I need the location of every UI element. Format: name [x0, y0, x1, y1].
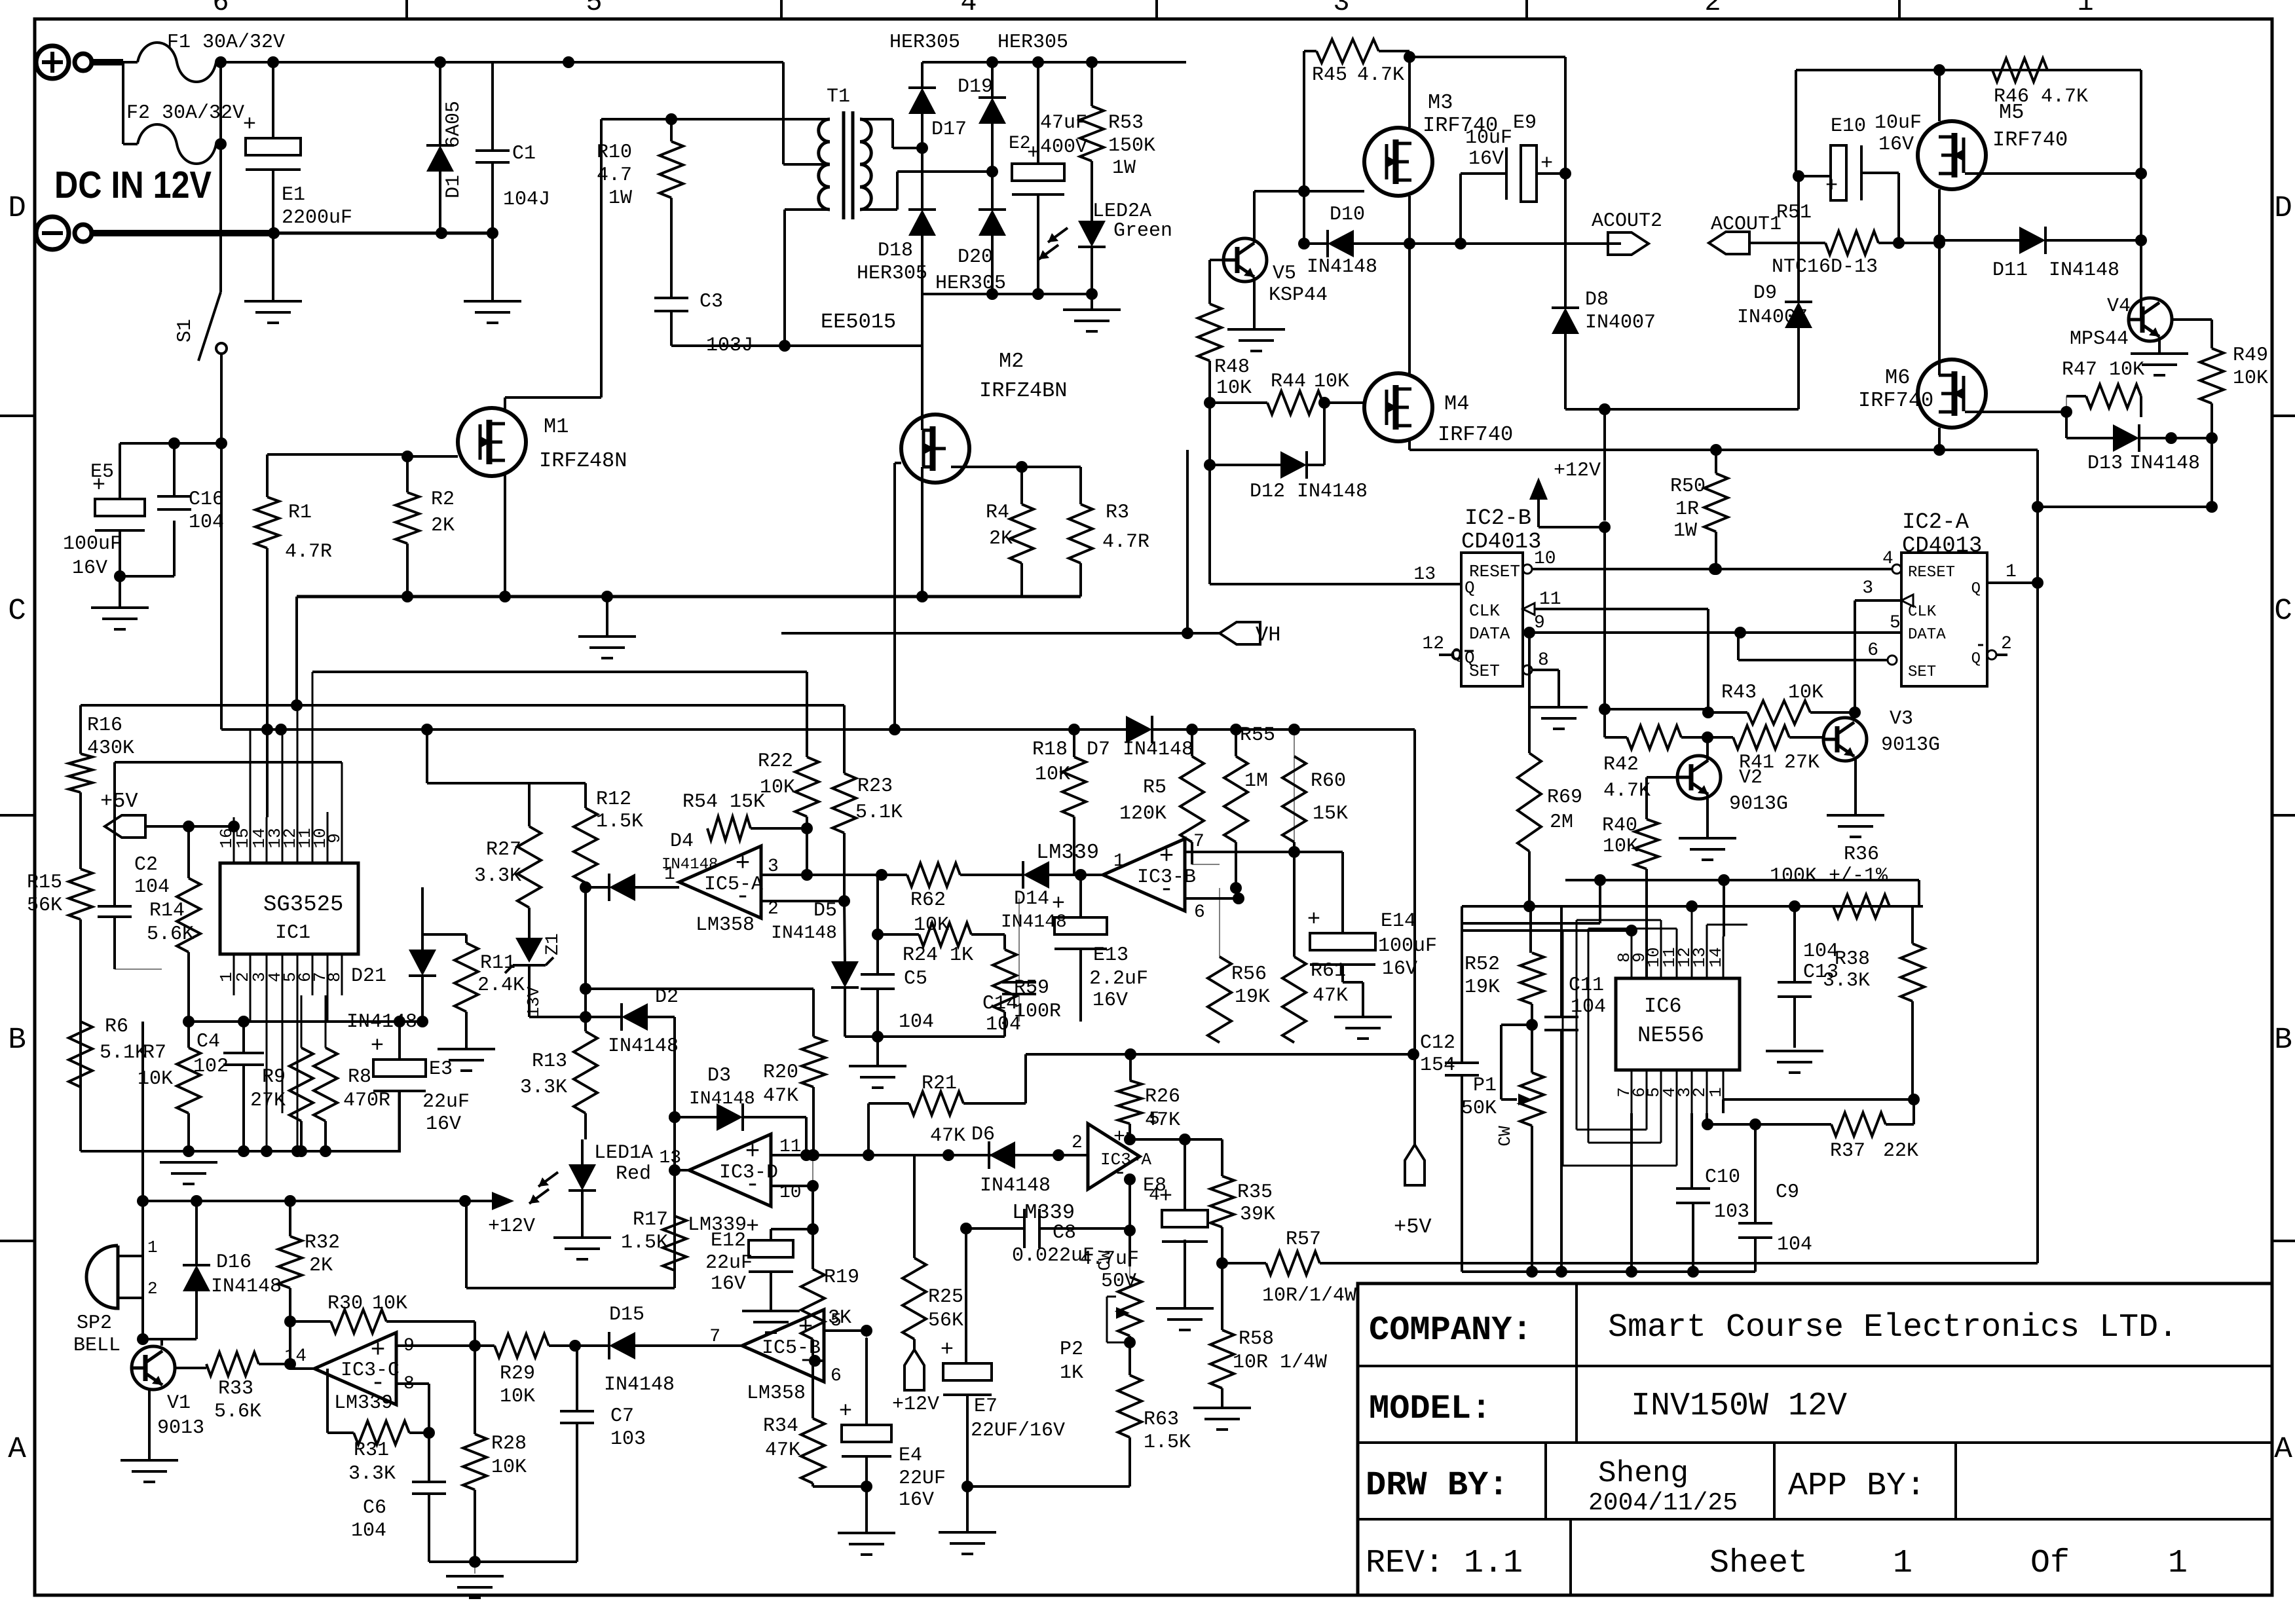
svg-text:10uF: 10uF: [1465, 127, 1512, 149]
svg-text:103: 103: [610, 1428, 646, 1450]
svg-text:C7: C7: [610, 1405, 634, 1428]
svg-text:D: D: [8, 191, 26, 225]
svg-text:P1: P1: [1473, 1075, 1497, 1097]
svg-text:R21: R21: [922, 1073, 957, 1095]
svg-text:D21: D21: [351, 965, 386, 987]
svg-text:R18: R18: [1032, 739, 1068, 761]
svg-text:R43: R43: [1721, 682, 1757, 704]
svg-text:4.7R: 4.7R: [1102, 531, 1149, 553]
svg-text:A: A: [2274, 1432, 2292, 1466]
svg-text:INV150W 12V: INV150W 12V: [1631, 1388, 1847, 1425]
svg-text:R29: R29: [500, 1363, 535, 1385]
svg-text:R26: R26: [1145, 1086, 1180, 1108]
svg-text:R36: R36: [1844, 843, 1879, 866]
svg-text:IRFZ48N: IRFZ48N: [539, 449, 627, 473]
svg-text:103J: 103J: [706, 335, 753, 357]
svg-text:1: 1: [2168, 1545, 2188, 1582]
svg-text:C11: C11: [1569, 974, 1604, 997]
svg-text:19K: 19K: [1465, 976, 1500, 999]
svg-text:C1: C1: [512, 143, 536, 165]
svg-text:10K: 10K: [372, 1293, 407, 1315]
svg-text:R9: R9: [262, 1066, 286, 1088]
svg-text:D12 IN4148: D12 IN4148: [1250, 481, 1368, 503]
svg-text:R44: R44: [1271, 371, 1306, 393]
svg-text:V2: V2: [1739, 767, 1763, 789]
svg-text:+5V: +5V: [100, 789, 138, 813]
svg-text:IN4148: IN4148: [689, 1089, 755, 1109]
svg-text:16V: 16V: [426, 1113, 461, 1135]
svg-text:D13: D13: [2087, 452, 2123, 475]
svg-text:R28: R28: [491, 1433, 527, 1455]
svg-text:2M: 2M: [1550, 811, 1573, 834]
svg-text:IC3-D: IC3-D: [719, 1162, 778, 1184]
svg-text:13V: 13V: [524, 986, 544, 1017]
svg-text:IRF740: IRF740: [1858, 388, 1933, 413]
svg-text:39K: 39K: [1240, 1204, 1275, 1226]
svg-text:10K: 10K: [1216, 377, 1252, 399]
svg-text:+12V: +12V: [488, 1215, 535, 1238]
svg-text:16V: 16V: [1382, 958, 1417, 980]
svg-text:E3: E3: [429, 1058, 453, 1080]
svg-text:R23: R23: [857, 775, 893, 798]
svg-text:150K: 150K: [1108, 135, 1155, 157]
svg-text:R40: R40: [1602, 815, 1637, 837]
svg-text:47uF: 47uF: [1040, 112, 1087, 134]
svg-text:MPS44: MPS44: [2070, 328, 2129, 350]
svg-text:R15: R15: [27, 872, 62, 894]
svg-text:16V: 16V: [711, 1273, 746, 1295]
svg-text:4: 4: [1882, 549, 1894, 569]
svg-text:D3: D3: [707, 1065, 731, 1087]
svg-text:47K: 47K: [763, 1085, 798, 1107]
svg-text:E7: E7: [974, 1395, 998, 1418]
svg-text:6A05: 6A05: [443, 101, 465, 148]
svg-text:10K: 10K: [491, 1456, 527, 1479]
svg-text:NE556: NE556: [1637, 1024, 1704, 1048]
svg-text:10uF: 10uF: [1875, 112, 1922, 134]
svg-text:R17: R17: [633, 1209, 668, 1231]
svg-text:R22: R22: [758, 750, 793, 773]
svg-text:REV: 1.1: REV: 1.1: [1366, 1545, 1523, 1582]
svg-text:IRF740: IRF740: [1438, 422, 1513, 447]
svg-text:M3: M3: [1428, 90, 1453, 115]
svg-text:13: 13: [1413, 564, 1436, 585]
svg-text:R63: R63: [1144, 1409, 1179, 1431]
svg-text:1.5K: 1.5K: [1144, 1431, 1191, 1454]
svg-text:E8: E8: [1143, 1175, 1166, 1197]
svg-text:R52: R52: [1465, 953, 1500, 976]
svg-text:7: 7: [709, 1327, 720, 1347]
svg-text:R8: R8: [348, 1066, 371, 1088]
svg-text:R5: R5: [1143, 777, 1166, 799]
svg-text:5: 5: [1890, 613, 1901, 633]
svg-text:DATA: DATA: [1908, 626, 1946, 644]
svg-text:104: 104: [351, 1520, 386, 1542]
svg-text:R1: R1: [288, 502, 312, 524]
svg-text:1K: 1K: [1060, 1362, 1083, 1384]
svg-text:R60: R60: [1311, 770, 1346, 792]
svg-text:100uF: 100uF: [63, 533, 122, 555]
svg-text:10K: 10K: [1788, 682, 1823, 704]
svg-text:R19: R19: [824, 1266, 859, 1289]
svg-text:10K: 10K: [2233, 367, 2268, 390]
svg-text:Z1: Z1: [543, 933, 563, 955]
svg-text:DATA: DATA: [1469, 624, 1510, 644]
svg-text:IC1: IC1: [275, 922, 310, 944]
svg-text:IN4148: IN4148: [604, 1374, 675, 1396]
svg-text:2: 2: [2001, 634, 2012, 654]
svg-text:E12: E12: [711, 1230, 746, 1252]
svg-text:4.7R: 4.7R: [285, 541, 332, 563]
svg-text:MODEL:: MODEL:: [1369, 1390, 1491, 1428]
svg-text:C14: C14: [982, 993, 1018, 1015]
svg-text:IN4148: IN4148: [1307, 256, 1377, 278]
svg-text:47K: 47K: [1313, 985, 1348, 1007]
svg-text:IRFZ4BN: IRFZ4BN: [979, 378, 1067, 403]
svg-text:IN4007: IN4007: [1585, 312, 1656, 334]
svg-text:R10: R10: [597, 141, 632, 164]
svg-text:R6: R6: [105, 1016, 128, 1038]
svg-text:22UF: 22UF: [899, 1467, 946, 1490]
svg-text:+5V: +5V: [1394, 1215, 1432, 1239]
svg-text:D5: D5: [813, 900, 837, 922]
svg-text:R69: R69: [1547, 786, 1582, 809]
svg-text:APP BY:: APP BY:: [1788, 1467, 1926, 1505]
svg-text:+: +: [1113, 1126, 1125, 1149]
svg-text:3.3K: 3.3K: [474, 865, 521, 887]
svg-text:IC5-A: IC5-A: [704, 874, 763, 896]
svg-text:47K: 47K: [1145, 1109, 1180, 1132]
svg-text:M4: M4: [1444, 392, 1469, 416]
svg-text:R51: R51: [1776, 202, 1812, 224]
svg-text:12: 12: [1422, 634, 1444, 654]
svg-text:COMPANY:: COMPANY:: [1369, 1311, 1533, 1350]
svg-text:LM339: LM339: [1036, 840, 1099, 864]
svg-text:R13: R13: [532, 1050, 567, 1073]
svg-text:Green: Green: [1113, 220, 1172, 242]
svg-text:IN4148: IN4148: [346, 1011, 417, 1033]
svg-text:9013G: 9013G: [1881, 734, 1940, 756]
svg-text:R35: R35: [1237, 1181, 1273, 1204]
svg-text:C8: C8: [1053, 1222, 1076, 1244]
svg-text:E2: E2: [1009, 134, 1031, 154]
svg-text:KSP44: KSP44: [1269, 284, 1328, 306]
svg-text:16V: 16V: [899, 1489, 934, 1511]
svg-text:D: D: [2274, 191, 2292, 225]
svg-text:V3: V3: [1890, 708, 1913, 730]
svg-text:R2: R2: [431, 489, 455, 511]
svg-text:D16: D16: [216, 1251, 252, 1274]
svg-text:P2: P2: [1060, 1338, 1083, 1361]
svg-text:50V: 50V: [1101, 1270, 1136, 1293]
svg-text:C12: C12: [1420, 1032, 1455, 1054]
svg-text:D11: D11: [1992, 259, 2028, 282]
svg-text:19K: 19K: [1235, 986, 1270, 1008]
svg-text:E1: E1: [282, 184, 305, 206]
svg-text:V5: V5: [1273, 263, 1296, 285]
svg-text:2.2uF: 2.2uF: [1089, 968, 1148, 990]
svg-text:R24 1K: R24 1K: [903, 944, 973, 967]
svg-text:D10: D10: [1330, 204, 1365, 226]
svg-text:Sheng: Sheng: [1598, 1456, 1689, 1490]
svg-text:E9: E9: [1513, 112, 1537, 134]
svg-text:IN4148: IN4148: [608, 1035, 679, 1058]
svg-text:R31: R31: [354, 1439, 389, 1462]
svg-text:1.5K: 1.5K: [621, 1232, 668, 1254]
svg-text:R7: R7: [143, 1042, 166, 1064]
svg-text:104: 104: [134, 876, 170, 898]
svg-text:R30: R30: [327, 1293, 363, 1315]
svg-text:DRW BY:: DRW BY:: [1366, 1466, 1508, 1505]
svg-text:D7: D7: [1087, 739, 1110, 761]
svg-text:3.3K: 3.3K: [348, 1463, 396, 1485]
svg-text:5.1K: 5.1K: [100, 1042, 147, 1064]
svg-text:A: A: [8, 1432, 26, 1466]
svg-text:C6: C6: [363, 1497, 386, 1519]
svg-text:7: 7: [1193, 832, 1204, 852]
svg-text:5.6K: 5.6K: [214, 1401, 261, 1423]
svg-text:B: B: [2274, 1023, 2292, 1057]
svg-text:4.7K: 4.7K: [1603, 780, 1651, 802]
svg-text:IN4007: IN4007: [1737, 306, 1808, 329]
svg-text:2: 2: [147, 1279, 158, 1299]
svg-text:D17: D17: [931, 119, 967, 141]
svg-text:100K +/-1%: 100K +/-1%: [1770, 865, 1888, 887]
svg-text:F1 30A/32V: F1 30A/32V: [167, 31, 285, 54]
svg-text:14: 14: [284, 1346, 307, 1367]
svg-text:CW: CW: [1495, 1126, 1515, 1147]
svg-text:+: +: [1540, 151, 1553, 175]
svg-text:R56: R56: [1231, 963, 1267, 986]
svg-text:IRF740: IRF740: [1992, 128, 2068, 152]
svg-text:C4: C4: [196, 1031, 220, 1053]
svg-text:C3: C3: [700, 291, 723, 313]
svg-text:104: 104: [189, 511, 224, 534]
svg-text:Smart Course Electronics LTD.: Smart Course Electronics LTD.: [1608, 1309, 2178, 1346]
svg-text:C16: C16: [189, 489, 224, 511]
svg-text:BELL: BELL: [73, 1335, 121, 1357]
svg-text:R45: R45: [1312, 64, 1347, 86]
svg-text:+: +: [1052, 892, 1065, 917]
svg-text:120K: 120K: [1119, 803, 1166, 825]
svg-text:IN4148: IN4148: [771, 923, 837, 944]
svg-text:R32: R32: [305, 1232, 340, 1254]
svg-text:HER305: HER305: [998, 31, 1068, 54]
svg-text:E5: E5: [90, 461, 114, 483]
svg-text:6: 6: [830, 1366, 842, 1386]
svg-text:C10: C10: [1705, 1166, 1740, 1189]
svg-text:HER305: HER305: [857, 263, 927, 285]
svg-text:R14: R14: [149, 900, 185, 922]
svg-text:Of: Of: [2030, 1545, 2070, 1582]
svg-text:M2: M2: [999, 349, 1024, 373]
svg-text:CD4013: CD4013: [1461, 530, 1541, 555]
svg-text:2: 2: [1704, 0, 1721, 18]
svg-text:50K: 50K: [1461, 1098, 1497, 1120]
svg-text:47K: 47K: [930, 1125, 965, 1147]
svg-text:6: 6: [212, 0, 229, 18]
svg-text:DC IN 12V: DC IN 12V: [54, 164, 212, 206]
svg-text:2K: 2K: [989, 528, 1013, 550]
svg-text:R49: R49: [2233, 344, 2268, 367]
svg-text:IC3-B: IC3-B: [1137, 866, 1196, 889]
svg-text:16V: 16V: [72, 557, 107, 580]
svg-text:1: 1: [2077, 0, 2093, 18]
svg-text:15K: 15K: [1313, 803, 1348, 825]
svg-text:R53: R53: [1108, 112, 1144, 134]
svg-text:F2 30A/32V: F2 30A/32V: [126, 102, 244, 124]
svg-text:27K: 27K: [250, 1090, 286, 1112]
svg-text:Sheet: Sheet: [1709, 1545, 1808, 1582]
svg-text:22uF: 22uF: [705, 1252, 753, 1274]
svg-text:22UF/16V: 22UF/16V: [971, 1420, 1065, 1442]
svg-text:11: 11: [1539, 589, 1561, 610]
svg-text:16V: 16V: [1092, 989, 1128, 1012]
svg-text:47K: 47K: [765, 1439, 800, 1462]
svg-text:3: 3: [1862, 578, 1873, 599]
svg-text:C9: C9: [1776, 1181, 1799, 1204]
svg-text:13: 13: [659, 1148, 681, 1168]
svg-text:103: 103: [1714, 1201, 1749, 1223]
svg-text:R58: R58: [1239, 1328, 1274, 1350]
svg-text:9: 9: [325, 833, 345, 843]
svg-text:IC5-B: IC5-B: [762, 1337, 821, 1359]
svg-text:104: 104: [899, 1011, 934, 1033]
svg-text:C: C: [2274, 594, 2292, 628]
svg-text:14: 14: [1706, 947, 1726, 967]
svg-text:1: 1: [147, 1238, 158, 1257]
svg-text:16V: 16V: [1878, 134, 1914, 156]
svg-text:HER305: HER305: [889, 31, 960, 54]
svg-text:R20: R20: [763, 1061, 798, 1084]
svg-text:4.7uF: 4.7uF: [1080, 1248, 1139, 1270]
svg-text:CD4013: CD4013: [1902, 534, 1982, 559]
svg-text:1M: 1M: [1244, 770, 1268, 792]
svg-text:C: C: [8, 594, 26, 628]
svg-text:R4: R4: [986, 502, 1009, 524]
svg-text:2: 2: [1072, 1133, 1083, 1153]
svg-text:D8: D8: [1585, 289, 1609, 311]
svg-text:IN4148: IN4148: [662, 856, 718, 874]
svg-text:3.3K: 3.3K: [520, 1077, 567, 1099]
svg-text:2K: 2K: [431, 515, 455, 537]
svg-text:1: 1: [1113, 851, 1125, 872]
svg-text:M6: M6: [1885, 365, 1910, 390]
svg-text:1W: 1W: [1112, 157, 1136, 179]
svg-text:R54 15K: R54 15K: [682, 791, 765, 813]
svg-text:154: 154: [1420, 1054, 1455, 1077]
svg-text:VH: VH: [1256, 623, 1280, 647]
svg-text:SET: SET: [1908, 663, 1936, 681]
svg-text:56K: 56K: [928, 1310, 963, 1332]
svg-text:10R 1/4W: 10R 1/4W: [1233, 1352, 1327, 1374]
svg-text:430K: 430K: [87, 737, 134, 760]
svg-text:V1: V1: [167, 1392, 191, 1414]
svg-text:6: 6: [1194, 902, 1205, 923]
svg-text:IN4148: IN4148: [2049, 259, 2119, 282]
svg-text:R34: R34: [763, 1415, 798, 1437]
svg-text:R62: R62: [910, 889, 946, 912]
svg-text:IC2-B: IC2-B: [1465, 506, 1531, 531]
svg-text:ACOUT2: ACOUT2: [1592, 210, 1662, 232]
svg-text:1: 1: [1706, 1087, 1726, 1098]
svg-text:2.4K: 2.4K: [477, 974, 525, 997]
svg-text:56K: 56K: [27, 895, 62, 917]
svg-text:E4: E4: [899, 1445, 922, 1467]
svg-text:10K: 10K: [1603, 836, 1638, 858]
svg-text:9: 9: [1534, 613, 1545, 633]
svg-text:Q: Q: [1971, 580, 1981, 598]
svg-text:R27: R27: [486, 839, 521, 861]
svg-text:V4: V4: [2107, 295, 2131, 318]
svg-text:R48: R48: [1214, 356, 1250, 378]
svg-text:Q: Q: [1452, 646, 1461, 664]
svg-text:R33: R33: [218, 1378, 253, 1400]
svg-text:R25: R25: [928, 1286, 963, 1308]
svg-text:R37: R37: [1830, 1140, 1865, 1162]
svg-text:10R/1/4W: 10R/1/4W: [1262, 1285, 1356, 1307]
svg-text:LM358: LM358: [747, 1382, 806, 1405]
svg-text:E13: E13: [1093, 944, 1129, 967]
svg-text:5: 5: [586, 0, 602, 18]
svg-text:+: +: [941, 1338, 954, 1363]
svg-text:R11: R11: [480, 952, 515, 974]
svg-text:2200uF: 2200uF: [282, 207, 352, 229]
svg-text:LED1A: LED1A: [594, 1142, 653, 1164]
svg-text:+: +: [1825, 174, 1838, 198]
svg-text:M1: M1: [544, 415, 569, 439]
svg-text:IC2-A: IC2-A: [1902, 510, 1969, 535]
svg-text:RESET: RESET: [1908, 564, 1955, 581]
svg-text:4: 4: [960, 0, 977, 18]
svg-text:LM358: LM358: [696, 914, 755, 936]
svg-text:SG3525: SG3525: [263, 893, 343, 917]
svg-text:+: +: [371, 1034, 384, 1059]
svg-text:2K: 2K: [309, 1255, 333, 1277]
svg-text:B: B: [8, 1023, 26, 1057]
svg-text:R12: R12: [596, 788, 631, 811]
svg-text:6: 6: [1867, 640, 1878, 661]
svg-text:Red: Red: [616, 1163, 651, 1185]
svg-text:100uF: 100uF: [1378, 935, 1437, 957]
svg-text:R42: R42: [1603, 754, 1639, 776]
svg-text:3: 3: [1333, 0, 1349, 18]
svg-text:1.5K: 1.5K: [596, 811, 643, 833]
svg-text:R47 10K: R47 10K: [2062, 359, 2144, 381]
svg-text:10K: 10K: [500, 1386, 535, 1408]
svg-text:10K: 10K: [760, 777, 795, 799]
svg-text:5: 5: [830, 1311, 842, 1331]
svg-text:22uF: 22uF: [422, 1091, 470, 1113]
svg-text:8: 8: [325, 972, 345, 982]
svg-text:9013G: 9013G: [1729, 793, 1788, 815]
svg-text:+: +: [839, 1399, 852, 1424]
svg-text:+: +: [243, 113, 256, 138]
svg-text:10K: 10K: [1035, 764, 1070, 786]
svg-text:S1: S1: [174, 319, 196, 342]
svg-text:IN4148: IN4148: [2129, 452, 2200, 475]
svg-text:104: 104: [986, 1014, 1021, 1036]
svg-text:4.7: 4.7: [597, 164, 632, 187]
svg-text:22K: 22K: [1883, 1140, 1918, 1162]
svg-text:IN4148: IN4148: [211, 1276, 282, 1298]
svg-text:5.1K: 5.1K: [855, 802, 903, 824]
svg-text:10K: 10K: [1314, 371, 1349, 393]
svg-text:104: 104: [1803, 940, 1838, 963]
svg-text:4.7K: 4.7K: [1357, 64, 1404, 86]
svg-text:LM339: LM339: [334, 1392, 393, 1414]
svg-text:R38: R38: [1835, 948, 1870, 970]
